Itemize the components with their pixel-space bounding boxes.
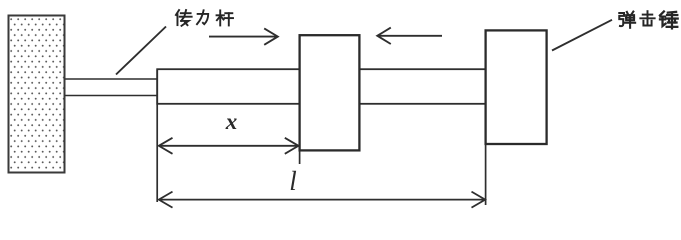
dimension l: double arrow	[159, 192, 485, 208]
extension line below striker block	[485, 144, 487, 205]
char 击	[640, 11, 654, 25]
transmission rod (thin)	[65, 79, 159, 96]
stippled wall block	[9, 16, 65, 173]
svg-text:x: x	[225, 109, 238, 134]
main bar	[157, 69, 485, 104]
extension line below middle block	[299, 151, 301, 165]
leader line for striker label	[552, 20, 612, 51]
label 传力杆 (transmission rod), drawn as strokes	[176, 10, 233, 26]
right-pointing arrow (impact direction)	[209, 28, 278, 44]
char 杆	[217, 10, 233, 25]
char 力	[197, 10, 208, 24]
striker hammer block	[486, 30, 547, 144]
dimension x: double arrow	[159, 138, 299, 154]
char 弹	[619, 12, 635, 28]
char 传	[176, 10, 192, 26]
char 锤	[660, 11, 678, 28]
middle flange block	[300, 35, 360, 150]
svg-text:l: l	[289, 166, 297, 196]
leader line for transmission rod label	[116, 27, 166, 75]
extension line at bar left edge	[156, 70, 158, 203]
left-pointing arrow	[377, 28, 442, 44]
label 弹击锤 (striker hammer), drawn as strokes	[619, 11, 677, 28]
